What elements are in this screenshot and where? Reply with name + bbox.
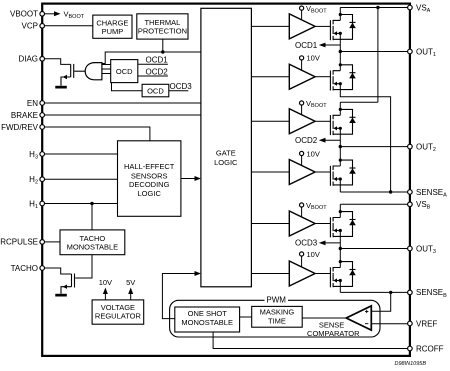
wire OUT3 to LS3 drain [339,249,341,268]
wire H3 [45,153,118,155]
supply 10V driver LS3 [300,250,320,268]
svg-text:GATE: GATE [216,149,236,158]
supply 10V driver LS1 [300,54,320,71]
wires gate logic to drivers [251,26,289,273]
wire OCD1 output [138,63,168,65]
wire EN to gate logic [45,102,201,104]
label OCD2 sense arrow [295,136,340,145]
op-amp driver high-side 3 [289,211,315,236]
transistor high-side 2 [330,115,342,135]
pin TACHO [11,264,45,273]
junction diode top HS3 [339,210,342,213]
wires AND gate inputs [102,65,111,74]
pin FWD/REV [1,123,44,132]
transistor low-side 1 [330,70,342,90]
svg-text:FWD/REV: FWD/REV [1,123,39,132]
junction thermal/gate-logic [161,50,164,53]
svg-text:PUMP: PUMP [102,27,124,36]
pin DIAG [18,55,44,64]
wire LS3 source to SENSEB rail [339,281,341,293]
svg-text:LOGIC: LOGIC [214,158,238,167]
wire driver to gate LS1 [315,76,330,78]
AND gate (OCD combine, points left) [85,63,102,80]
wire drain to top rail HS2 [339,102,341,115]
arrow 5V regulator output [126,278,135,300]
svg-text:TACHO: TACHO [80,234,106,243]
supply 10V driver LS2 [300,149,320,166]
wire drain to VSA rail [339,8,341,21]
wire OUT1 to LS1 drain [339,52,341,71]
wire SENSEB rail [340,291,407,293]
wire SENSEB to comparator input [371,292,390,311]
wire VSB rail [340,203,407,205]
svg-text:PWM: PWM [266,296,286,305]
junction OUT2 [339,145,342,148]
pin VSB [408,200,431,211]
pin RCPULSE [0,238,44,247]
svg-text:OCD2: OCD2 [146,67,169,76]
block ONE SHOT MONOSTABLE [175,307,240,332]
wire OUT2 to LS2 drain [339,147,341,166]
transistor DIAG open-drain (mirrored) [61,64,85,86]
svg-text:RCOFF: RCOFF [416,344,444,353]
pin OUT3 [408,244,436,255]
wire driver to gate LS3 [315,273,330,275]
label SENSE COMPARATOR [307,321,360,339]
svg-text:VBOOT: VBOOT [10,10,38,19]
wire OCD2 output [138,75,168,77]
wire BRAKE to gate logic [45,114,201,116]
pin RCOFF [408,344,444,353]
block MASKING TIME [252,306,303,327]
junction SENSEB [389,291,392,294]
op-amp driver low-side 3 [289,261,315,286]
svg-text:ONE SHOT: ONE SHOT [188,309,228,318]
diode body HS2 [340,109,356,134]
wire drain to VSB rail [339,204,341,217]
svg-text:D98IN1095B: D98IN1095B [395,361,427,367]
block VOLTAGE REGULATOR [92,300,144,324]
pin VREF [408,319,438,328]
transistor high-side 1 [330,20,342,40]
VBOOT output arrow and label [45,10,85,20]
pin H1 [29,199,44,210]
comparator SENSE (points left) [346,306,371,330]
wire thermal protection to gate logic [97,39,201,63]
wire driver to gate HS3 [315,223,330,225]
pin EN [27,99,45,108]
wire DIAG to transistor [45,59,71,65]
wire masking time to one shot [240,316,252,318]
block CHARGE PUMP [93,15,132,38]
svg-text:OCD3: OCD3 [170,82,193,91]
svg-text:EN: EN [27,99,38,108]
svg-text:TACHO: TACHO [11,264,38,273]
wire one shot to gate logic (arrow) [162,271,201,319]
ground (DIAG transistor) [55,86,67,89]
svg-text:DECODING: DECODING [129,180,170,189]
block HALL-EFFECT SENSORS DECODING LOGIC [118,141,181,217]
wire FWD/REV to hall decoding block [45,127,150,141]
op-amp driver low-side 1 [289,64,315,89]
block THERMAL PROTECTION [137,14,188,39]
junction VSA feed [376,6,379,9]
wire HS2 source to OUT2 [339,128,341,146]
wire VCP to charge pump [45,25,93,27]
svg-text:HALL-EFFECT: HALL-EFFECT [124,162,175,171]
wire VREF to comparator input [371,323,407,325]
supply VBOOT bridge2 [300,99,328,115]
junction OUT1 [339,50,342,53]
block GATE LOGIC [201,8,252,287]
wire OCD box to OCD3 box [112,83,143,91]
svg-text:OCD: OCD [147,86,164,95]
svg-text:VREF: VREF [416,319,437,328]
pin VBOOT [10,10,45,19]
svg-text:CHARGE: CHARGE [96,19,128,28]
svg-text:OCD1: OCD1 [146,56,169,65]
svg-text:10V: 10V [307,149,320,158]
svg-text:TIME: TIME [268,316,286,325]
pin BRAKE [11,111,45,120]
svg-text:SENSORS: SENSORS [131,171,168,180]
junction diode top HS2 [339,108,342,111]
wire OUT1 [340,51,407,53]
svg-text:OCD3: OCD3 [295,239,318,248]
svg-text:OCD2: OCD2 [295,136,318,145]
svg-text:THERMAL: THERMAL [144,18,180,27]
pin VCP [22,22,45,31]
wire H2 [45,178,118,180]
wire comparator to masking time [302,317,346,319]
block TACHO MONOSTABLE [60,230,125,255]
diode body LS3 [340,262,356,287]
svg-text:10V: 10V [99,278,112,287]
svg-text:OCD1: OCD1 [295,41,318,50]
svg-text:VCP: VCP [22,22,38,31]
svg-text:DIAG: DIAG [18,55,38,64]
label PWM [265,296,289,305]
diode body LS2 [340,160,356,185]
junction diode top HS1 [339,13,342,16]
wire H1 to tacho monostable [91,204,93,230]
wire OUT2 [340,146,407,148]
svg-text:10V: 10V [307,54,320,63]
svg-text:5V: 5V [126,278,135,287]
pin SENSEB [408,288,448,299]
op-amp driver high-side 1 [289,14,315,39]
junction H1/tacho [90,202,93,205]
wire tacho monostable to tacho transistor gate [75,255,92,278]
transistor high-side 3 [330,217,342,237]
transistor low-side 2 [330,166,342,186]
wire LS2 source to SENSEA rail [339,179,341,192]
svg-text:10V: 10V [307,250,320,259]
junction diode top LS3 [339,260,342,263]
supply VBOOT bridge1 [300,4,328,20]
chip outline border [42,4,410,356]
op-amp driver low-side 2 [289,160,315,185]
wire VSA rail [340,7,407,9]
svg-text:MONOSTABLE: MONOSTABLE [181,318,233,327]
wire bridge2 top rail [340,101,378,103]
junction diode top LS2 [339,159,342,162]
svg-text:BRAKE: BRAKE [11,111,38,120]
wire VSA down to bridge2 [377,8,379,103]
wire OCD3 output [169,90,189,92]
wire HS1 source to OUT1 [339,33,341,51]
wire TACHO to transistor [45,268,72,274]
wire LS1 source to sense rail [340,84,390,192]
wire driver to gate HS2 [315,120,330,122]
junction OUT3 [339,247,342,250]
wire H1 [45,203,118,205]
ground (TACHO transistor) [55,294,67,297]
wire HS3 source to OUT3 [339,231,341,249]
svg-text:COMPARATOR: COMPARATOR [307,329,360,338]
pin OUT1 [408,47,436,58]
pin H3 [29,150,44,161]
wire RCPULSE to tacho monostable [45,241,61,243]
pin VSA [408,3,431,14]
pin H2 [29,175,44,186]
PWM block rounded outline [170,300,380,337]
junction diode top LS1 [339,63,342,66]
block OCD (1,2) [111,60,138,83]
diode body LS1 [340,65,356,90]
svg-text:LOGIC: LOGIC [138,189,162,198]
diode body HS3 [340,212,356,237]
supply VBOOT bridge3 [300,201,328,218]
wire hall block to gate logic (arrow) [181,176,201,181]
label OCD1 sense arrow [295,41,340,50]
wire driver to gate LS2 [315,171,330,173]
block OCD (3) [142,84,169,97]
op-amp driver high-side 2 [289,109,315,134]
pin SENSEA [408,188,448,199]
svg-text:PROTECTION: PROTECTION [138,27,187,36]
label OCD3 sense arrow [295,239,340,248]
wire one shot to RCOFF [213,332,408,349]
svg-text:RCPULSE: RCPULSE [0,238,38,247]
junction SENSEA [389,190,392,193]
wire SENSEA rail [340,191,407,193]
pin OUT2 [408,142,436,153]
transistor low-side 3 [330,267,342,287]
svg-text:MASKING: MASKING [260,308,295,317]
svg-text:VOLTAGE: VOLTAGE [101,303,135,312]
svg-text:OCD: OCD [116,67,133,76]
transistor TACHO open-drain (mirrored) [61,274,75,294]
wire driver to gate [315,25,330,27]
arrow 10V regulator output [99,278,112,300]
svg-text:SENSEA: SENSEA [416,188,447,199]
svg-text:MONOSTABLE: MONOSTABLE [67,243,119,252]
svg-text:REGULATOR: REGULATOR [95,312,142,321]
wire OUT3 [340,248,407,250]
diode body HS1 [340,15,356,40]
